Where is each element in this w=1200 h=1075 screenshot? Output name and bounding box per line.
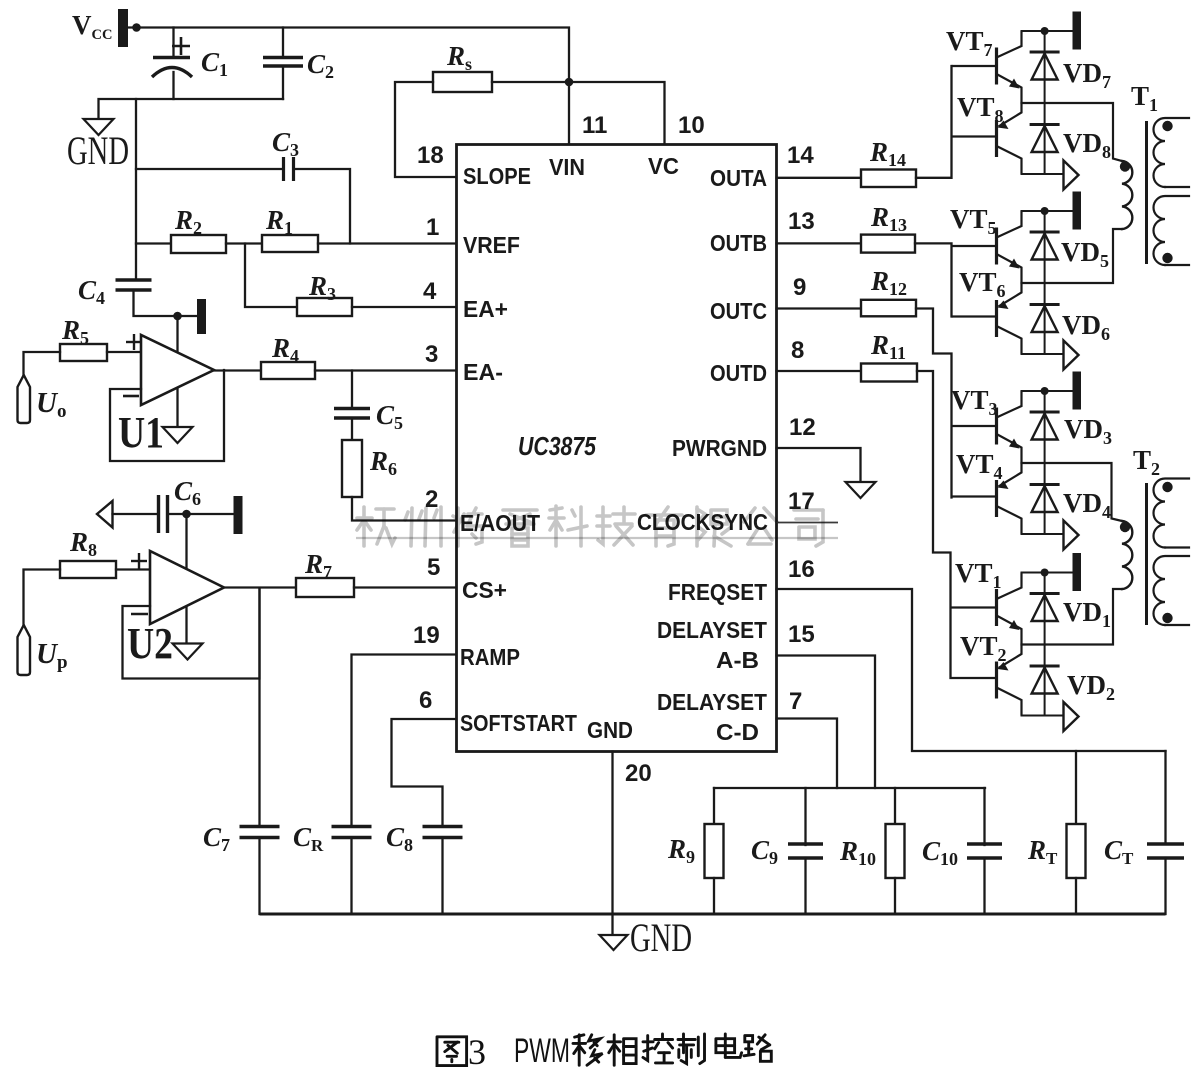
wire Up lead [24, 570, 61, 626]
svg-text:OUTC: OUTC [710, 298, 767, 324]
caption: figure 3 PWM phase-shift control circuit [437, 1034, 771, 1066]
diode VD3 [1030, 412, 1060, 440]
svg-text:CS+: CS+ [462, 577, 507, 603]
svg-text:DELAYSET: DELAYSET [657, 617, 768, 643]
wire collector rail [1022, 30, 1073, 32]
svg-text:VIN: VIN [549, 154, 585, 180]
svg-text:GND: GND [630, 915, 692, 960]
svg-text:9: 9 [793, 274, 806, 301]
wire U2 out down to C7 [258, 588, 260, 826]
wire OUTB to R13 [777, 242, 862, 244]
wire C1 bottom lead [172, 72, 174, 99]
wire R3 to EA+ pin 4 [352, 306, 457, 308]
capacitor C10 [967, 844, 1002, 858]
resistor R3 [297, 298, 352, 316]
wire diode leg vertical [1044, 573, 1046, 716]
wire CLOCKSYNC pin 17 stub [777, 522, 839, 524]
wire U1 out to R4 [214, 369, 261, 371]
wire C8 to ground rail [441, 838, 443, 915]
svg-text:1: 1 [426, 214, 439, 241]
capacitor C5 [334, 409, 370, 419]
transformer T2 core [1145, 483, 1148, 625]
terminal Up [18, 625, 31, 675]
capacitor C1 (electrolytic) [152, 58, 192, 78]
wire GND pin 20 stem [611, 752, 613, 937]
svg-text:10: 10 [678, 112, 705, 139]
junction dot on rail [1041, 207, 1049, 215]
supply bar for VT1 [1073, 553, 1082, 591]
transistor VT7 [997, 31, 1022, 103]
half-bridge module VT5/VT6 [1022, 207, 1073, 215]
capacitor C7 [240, 827, 280, 838]
wire R6 to E/AOUT pin 2 [352, 497, 457, 521]
junction dot on rail [1041, 569, 1049, 577]
svg-text:EA+: EA+ [463, 296, 508, 322]
output arrow for VT2 [1064, 702, 1079, 731]
winding dot T2 primary [1120, 522, 1130, 532]
wire DELAYSET C-D pin 7 [777, 719, 838, 789]
svg-text:FREQSET: FREQSET [668, 579, 768, 605]
wire OUTC to R12 [777, 307, 862, 309]
svg-text:U2: U2 [127, 619, 173, 668]
svg-text:SLOPE: SLOPE [463, 163, 531, 189]
wire supply bottom bus [99, 99, 284, 119]
wire R9 top lead [713, 788, 715, 824]
wire base stub VT4 [952, 495, 997, 497]
junction dot Vin rail x Rs wire [565, 78, 574, 87]
resistor RT [1067, 824, 1086, 878]
wire OUTD to R11 [777, 370, 862, 372]
svg-text:U1: U1 [118, 408, 164, 457]
wire FREQSET pin 16 net [777, 589, 1166, 751]
half-bridge module VT3/VT4 [1022, 387, 1073, 395]
wire VREF row [136, 242, 171, 244]
transistor VT6 [997, 283, 1022, 354]
wire R9 bottom lead [713, 878, 715, 914]
supply bar for VT7 [1073, 12, 1082, 50]
wire C2 top lead [282, 28, 284, 58]
wire R2R1 junction down to R3 [245, 244, 297, 308]
wire R12 to VT3/VT4 bases [916, 309, 952, 498]
output arrow for VT4 [1064, 521, 1079, 550]
svg-text:A-B: A-B [716, 647, 759, 673]
wire base stub VT7 [952, 65, 997, 67]
diode VD8 [1030, 125, 1060, 153]
wire RT bottom lead [1075, 878, 1077, 914]
op-amp U1 plus marker [126, 334, 142, 350]
wire timing rail [714, 787, 985, 789]
transformer T1 secondary 2 [1154, 196, 1190, 265]
diode VD1 [1030, 594, 1060, 622]
wire collector rail [1022, 390, 1073, 392]
wire R10 top lead [894, 788, 896, 824]
wire emitter line VT6 to arrow [1022, 353, 1064, 355]
ground GND bottom [600, 935, 628, 950]
wire OUTA to R14 [777, 177, 862, 179]
ground GND top-left [84, 119, 114, 135]
op-amp U1 minus marker [123, 395, 139, 398]
diode VD6 [1030, 305, 1060, 333]
wire C10 bottom lead [983, 858, 985, 914]
svg-text:C-D: C-D [716, 719, 759, 745]
wire C3 left [136, 168, 284, 170]
resistor R9 [705, 824, 724, 878]
wire R8 to U2 plus input [116, 568, 150, 570]
wire C4 bottom to ref bar [134, 290, 198, 316]
wire base stub VT3 [952, 425, 997, 427]
wire base stub VT1 [952, 606, 997, 608]
wire R1 to VREF pin 1 [318, 242, 457, 244]
transformer T1 secondary 1 [1154, 118, 1190, 187]
wire CR to ground rail [350, 838, 352, 915]
svg-text:3: 3 [425, 341, 438, 368]
ground PWRGND [846, 482, 876, 498]
transistor VT2 [997, 645, 1022, 716]
wire emitter line VT2 to arrow [1022, 715, 1064, 717]
diode VD5 [1030, 232, 1060, 260]
ground under U2 [173, 644, 203, 660]
wire R4 to EA- pin 3 [315, 369, 457, 371]
capacitor C6 [159, 495, 168, 533]
resistor R2 [171, 235, 226, 253]
node wire module1 output to T1 primary top [1022, 103, 1123, 161]
wire C2 bottom lead [282, 66, 284, 99]
wire emitter line VT8 to arrow [1022, 173, 1064, 175]
diode VD2 [1030, 666, 1060, 694]
wire Uo lead [24, 352, 61, 375]
svg-text:11: 11 [582, 112, 607, 139]
svg-text:VREF: VREF [463, 232, 520, 258]
svg-text:6: 6 [419, 687, 432, 714]
transistor VT3 [997, 391, 1022, 463]
wire R14 to VT7/VT8 bases [916, 66, 952, 178]
half-bridge module VT7/VT8 [1022, 27, 1073, 35]
wire C10 leads [983, 788, 985, 845]
svg-text:DELAYSET: DELAYSET [657, 689, 768, 715]
wire R10 bottom lead [894, 878, 896, 914]
wire left vertical node [135, 99, 137, 280]
wire SOFTSTART pin 6 to C8 [392, 719, 457, 826]
capacitor C9 [788, 844, 823, 858]
transformer T2 secondary 1 [1154, 479, 1190, 548]
watermark strike line [356, 537, 838, 539]
op-amp U2 plus marker [131, 553, 147, 569]
wire C9 bottom lead [804, 858, 806, 914]
svg-text:3: 3 [468, 1032, 486, 1070]
transistor VT5 [997, 211, 1022, 283]
transistor VT1 [997, 573, 1022, 645]
winding dot T1 secondary1 [1162, 121, 1172, 131]
resistor R6 [342, 440, 362, 497]
wire diode leg vertical [1044, 31, 1046, 174]
svg-text:OUTA: OUTA [710, 165, 767, 191]
terminal Uo [18, 375, 31, 423]
winding dot T1 primary [1120, 161, 1130, 171]
svg-text:VC: VC [648, 153, 679, 179]
transformer T2 secondary 2 [1154, 556, 1190, 625]
wire C5 to R6 [351, 418, 353, 440]
resistor R7 [296, 578, 354, 597]
svg-text:PWRGND: PWRGND [672, 435, 767, 461]
junction dot at Vcc [132, 23, 141, 32]
wire CT top feed [1164, 751, 1166, 843]
svg-text:EA-: EA- [463, 359, 503, 385]
wire base stub VT6 [952, 315, 997, 317]
node wire module4 output to T2 primary bottom [1022, 589, 1123, 645]
svg-text:18: 18 [417, 142, 444, 169]
wire U1 ground stem [176, 316, 178, 427]
wire R5 to U1 plus input [107, 351, 141, 353]
node wire module3 output to T2 primary top [1022, 463, 1123, 521]
supply bar for VT5 [1073, 192, 1082, 230]
wire Rs right to VC drop [492, 82, 665, 145]
resistor R12 [861, 300, 916, 317]
diode VD7 [1030, 52, 1060, 80]
resistor R1 [262, 235, 318, 252]
diode VD4 [1030, 485, 1060, 513]
svg-text:12: 12 [789, 414, 816, 441]
svg-text:13: 13 [788, 208, 815, 235]
wire bottom ground rail [260, 913, 1166, 916]
node wire module2 output to T1 primary bottom [1022, 229, 1123, 283]
ground under U1 [163, 427, 193, 443]
svg-text:14: 14 [787, 142, 814, 169]
wire U2 out to R7 [224, 586, 296, 588]
svg-text:GND: GND [67, 128, 129, 173]
capacitor CR [332, 827, 372, 838]
wire C1 top lead [172, 28, 174, 57]
svg-text:15: 15 [788, 621, 815, 648]
capacitor C2 [263, 58, 303, 67]
op-amp U1 [141, 335, 214, 405]
output arrow for VT6 [1064, 341, 1079, 370]
transistor VT8 [997, 103, 1022, 174]
input arrow terminal near C6 [97, 501, 113, 528]
svg-text:OUTB: OUTB [710, 230, 767, 256]
capacitor C8 [423, 827, 463, 838]
junction dot on rail [1041, 387, 1049, 395]
svg-text:OUTD: OUTD [710, 360, 767, 386]
wire arrow to C6 [113, 513, 159, 515]
svg-text:7: 7 [789, 688, 802, 715]
wire R13 to VT5/VT6 bases [915, 243, 952, 316]
wire C9 leads [804, 788, 806, 845]
op-amp U2 [150, 551, 224, 624]
wire PWRGND pin 12 [777, 448, 861, 482]
wire EA- branch down to C5 [351, 371, 353, 407]
resistor R5 [60, 344, 107, 361]
wire R2-R1 link [226, 242, 262, 244]
wire collector rail [1022, 210, 1073, 212]
svg-text:16: 16 [788, 556, 815, 583]
transformer T1 primary winding [1122, 161, 1132, 229]
wire C3 right to VREF branch [294, 169, 351, 244]
watermark company text (decorative gray) [357, 506, 823, 546]
reference bar near U2 [234, 496, 243, 534]
wire diode leg vertical [1044, 211, 1046, 354]
wire base stub VT2 [952, 677, 997, 679]
resistor R10 [886, 824, 905, 878]
wire Vcc rail to VIN drop [128, 28, 569, 145]
resistor Rs [433, 72, 492, 92]
capacitor C3 [284, 157, 294, 181]
reference bar near U1 [197, 299, 206, 334]
winding dot T1 secondary2 [1162, 253, 1172, 263]
wire C7 to ground rail [258, 838, 260, 915]
IC UC3875 body [457, 145, 777, 752]
wire R7 to CS+ pin 5 [354, 586, 457, 588]
capacitor C1 plus sign [172, 37, 190, 55]
transformer T2 primary winding [1122, 521, 1132, 589]
junction dot right of C6 [182, 510, 191, 519]
capacitor CT [1147, 844, 1184, 858]
transistor VT4 [997, 463, 1022, 534]
svg-text:5: 5 [427, 554, 440, 581]
resistor R4 [261, 362, 315, 379]
wire DELAYSET A-B pin 15 [777, 656, 876, 789]
junction dot under C4 [173, 312, 182, 321]
svg-text:8: 8 [791, 337, 804, 364]
svg-text:PWM: PWM [514, 1032, 570, 1070]
op-amp U2 minus marker [131, 613, 148, 616]
winding dot T2 secondary1 [1162, 482, 1172, 492]
wire U2 ground stem [185, 514, 187, 644]
wire base stub VT5 [952, 245, 997, 247]
svg-text:RAMP: RAMP [460, 644, 520, 670]
junction dot on rail [1041, 27, 1049, 35]
wire U2 feedback box [123, 588, 260, 679]
wire R11 to VT1/VT2 bases [917, 371, 951, 678]
svg-text:20: 20 [625, 760, 652, 787]
wire RAMP pin 19 to CR [352, 655, 457, 827]
resistor R13 [861, 235, 915, 253]
resistor R14 [861, 170, 916, 188]
svg-text:SOFTSTART: SOFTSTART [460, 710, 578, 736]
supply bar for VT3 [1073, 372, 1082, 410]
capacitor C4 [116, 280, 152, 290]
output arrow for VT8 [1064, 161, 1079, 190]
wire emitter line VT4 to arrow [1022, 533, 1064, 535]
wire diode leg vertical [1044, 391, 1046, 534]
svg-text:GND: GND [587, 717, 633, 743]
transformer T1 core [1145, 121, 1148, 264]
resistor R11 [861, 364, 917, 382]
wire U1 feedback box [110, 370, 224, 461]
wire Rs left to SLOPE pin 18 [395, 82, 457, 177]
wire collector rail [1022, 572, 1073, 574]
svg-text:19: 19 [413, 622, 440, 649]
wire CT bottom lead [1164, 858, 1166, 914]
half-bridge module VT1/VT2 [1022, 569, 1073, 577]
winding dot T2 secondary2 [1162, 613, 1172, 623]
wire C6 to ref bar [168, 513, 234, 515]
wire RT top feed [1075, 751, 1077, 824]
wire base stub VT8 [952, 135, 997, 137]
svg-text:4: 4 [423, 278, 437, 305]
resistor R8 [60, 561, 116, 578]
Vcc supply bar [118, 9, 128, 47]
svg-text:UC3875: UC3875 [518, 431, 596, 461]
